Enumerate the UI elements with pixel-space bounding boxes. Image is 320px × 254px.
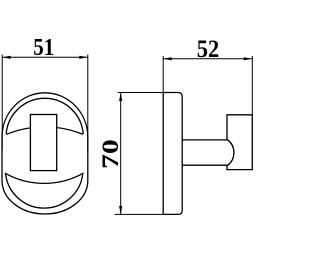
arrow 70 bottom [119,206,122,215]
dim 51 line [2,56,88,58]
dim 52 extension right [251,56,253,115]
side view hook tab block [227,115,252,170]
arrow 51 right [79,56,88,59]
dim 70 extension top [118,92,164,94]
front view wing lower curve [6,127,83,134]
front view outer oval [2,93,88,214]
side view stem bottom line [182,164,227,166]
side view wall plate [163,93,182,215]
dim 70 line [120,93,122,215]
front view central rectangle [30,115,56,171]
svg-text:51: 51 [33,34,54,61]
arrow 70 top [119,93,122,102]
side view stem bullet arc [227,140,234,166]
dim 51 extension right [87,55,89,153]
dim 51 extension left [1,55,3,151]
dim 52 extension left [162,56,164,93]
arrow 52 left [163,57,172,60]
arrow 51 left [2,56,11,59]
front view lower crescent (smile) [6,173,83,208]
svg-text:52: 52 [197,36,220,63]
arrow 52 right [244,57,253,60]
svg-text:70: 70 [97,139,123,169]
front view inner top arc [6,98,83,134]
dim 52 line [163,58,252,60]
side view stem top line [182,139,227,141]
dim 70 extension bottom [115,213,164,215]
